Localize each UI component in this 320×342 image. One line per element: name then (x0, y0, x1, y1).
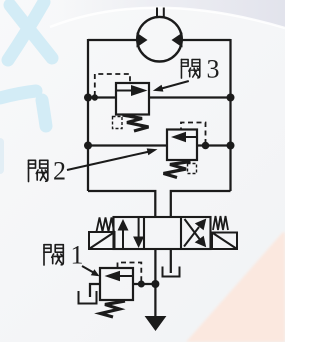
wire valve3 output (149, 96, 231, 98)
svg-text:1: 1 (71, 241, 84, 270)
valve V2 pilot line (181, 123, 206, 145)
valve V3 pilot line (95, 74, 130, 96)
svg-text:3: 3 (207, 55, 220, 84)
directional valve right spring (213, 216, 228, 230)
wire valve3 input (88, 96, 116, 98)
valve V2 drain box (188, 164, 197, 174)
junction right rail / valve V2 output (227, 142, 235, 150)
tank symbol right (163, 267, 180, 277)
wire valve1 drain to tank (90, 284, 100, 297)
directional valve right position crossed arrows (184, 219, 206, 248)
wire motor left (88, 39, 138, 41)
valve V1 spring (101, 301, 126, 317)
junction valve V3 pilot tap (92, 94, 98, 100)
junction valve V2 pilot tap (202, 142, 210, 150)
label valve 1 (44, 241, 100, 277)
junction right rail / valve V3 output (227, 94, 235, 102)
label valve 3 (153, 55, 220, 92)
wire to right tank (170, 249, 172, 273)
wire left step to port A (88, 191, 155, 217)
wire left rail (87, 39, 89, 191)
wire valve1 output (133, 283, 155, 285)
wire right step to port B (171, 191, 231, 217)
tank triangle (145, 316, 167, 331)
junction left rail / valve V2 input (84, 142, 92, 150)
wire valve2 input (88, 144, 167, 146)
wire tank line (154, 249, 156, 316)
valve V3 spring (123, 115, 149, 131)
valve V3 drain box (113, 117, 123, 129)
junction tank line / valve V1 output (151, 280, 159, 288)
directional valve body (114, 217, 211, 249)
directional valve right solenoid (212, 233, 237, 250)
valve V2 spring (164, 162, 191, 178)
svg-text:2: 2 (53, 157, 66, 186)
directional valve left position arrows (118, 218, 145, 249)
valve V2 (pilot relief) (164, 123, 206, 178)
wire right rail (229, 39, 231, 191)
tank symbol left (79, 291, 97, 304)
wire valve2 output (197, 144, 231, 146)
valve V1 pilot line (118, 263, 142, 283)
junction left rail / valve V3 input (84, 94, 92, 102)
directional valve left solenoid (89, 232, 115, 249)
valve V1 (pilot relief) (100, 263, 141, 318)
wire motor right (182, 39, 231, 41)
directional valve left spring (97, 218, 115, 232)
label valve 2 (29, 148, 158, 185)
valve V3 (pilot relief) (95, 74, 149, 131)
hydraulic motor (137, 8, 183, 62)
junction valve V1 pilot tap (138, 281, 145, 288)
